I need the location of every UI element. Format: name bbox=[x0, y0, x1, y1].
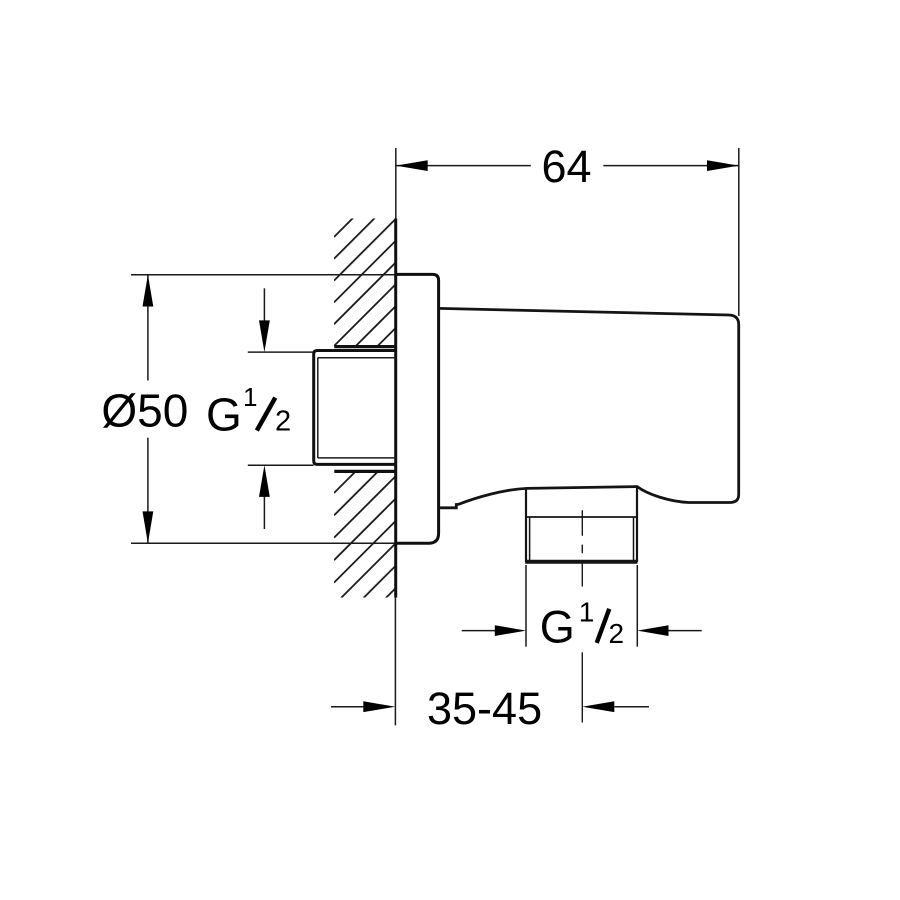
svg-text:G: G bbox=[540, 601, 575, 652]
svg-text:1: 1 bbox=[579, 596, 595, 627]
svg-text:35-45: 35-45 bbox=[427, 683, 542, 734]
svg-text:2: 2 bbox=[609, 618, 625, 649]
svg-text:2: 2 bbox=[275, 406, 291, 438]
svg-text:64: 64 bbox=[541, 141, 591, 192]
svg-text:1: 1 bbox=[243, 382, 257, 412]
svg-text:Ø50: Ø50 bbox=[101, 385, 188, 437]
svg-text:G: G bbox=[206, 389, 242, 441]
